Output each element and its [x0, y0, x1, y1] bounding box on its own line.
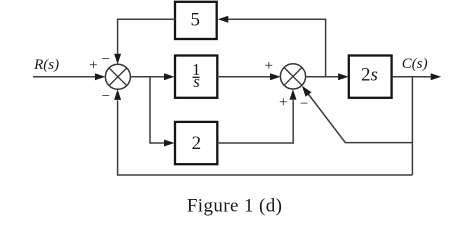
svg-text:−: − — [102, 51, 110, 67]
wire S2 to block 2s — [306, 76, 339, 78]
block G1 integrator 1/s — [175, 56, 217, 98]
svg-text:s: s — [193, 72, 200, 91]
wire takeoff after 2s down right side — [411, 77, 413, 175]
svg-text:+: + — [279, 95, 287, 111]
svg-text:2: 2 — [192, 133, 202, 154]
wire takeoff after S1 down to block 2 — [150, 77, 164, 143]
svg-text:−: − — [300, 96, 308, 112]
wire diagonal feedback to S2 — [308, 94, 412, 143]
block H1 gain 5 — [175, 2, 217, 39]
block G2 gain 2s — [349, 56, 392, 98]
svg-text:+: + — [89, 58, 97, 74]
wire bottom feedback to S1 — [118, 100, 413, 175]
wire 2s to output C(s) — [392, 76, 431, 78]
svg-text:Figure 1 (d): Figure 1 (d) — [187, 196, 283, 217]
svg-text:R(s): R(s) — [33, 57, 59, 73]
summing junction S1 — [105, 64, 130, 89]
svg-text:2s: 2s — [361, 64, 378, 85]
svg-text:+: + — [265, 58, 273, 74]
value label 1/s — [192, 60, 201, 91]
wire 1/s to summer S2 — [217, 76, 270, 78]
svg-text:C(s): C(s) — [402, 56, 428, 72]
wire block 5 to S1 top — [118, 19, 175, 54]
wire takeoff after S2 up to block 5 — [228, 19, 325, 77]
wire S1 to block 1/s — [130, 76, 164, 78]
block H2 gain 2 — [175, 122, 217, 164]
svg-text:−: − — [102, 88, 110, 104]
wire block 2 to S2 bottom — [217, 100, 293, 143]
svg-text:5: 5 — [191, 10, 201, 31]
wire R(s) to summer S1 — [33, 76, 95, 78]
summing junction S2 — [280, 64, 305, 89]
